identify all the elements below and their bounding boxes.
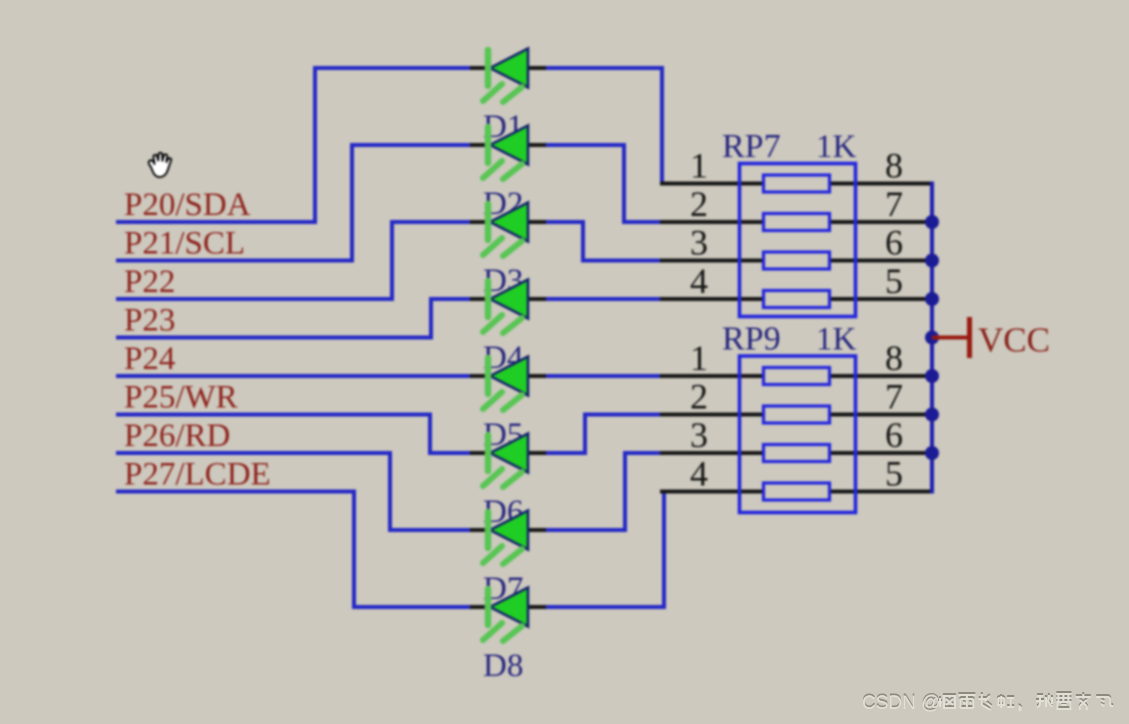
svg-text:CSDN @: CSDN @ bbox=[862, 693, 940, 714]
